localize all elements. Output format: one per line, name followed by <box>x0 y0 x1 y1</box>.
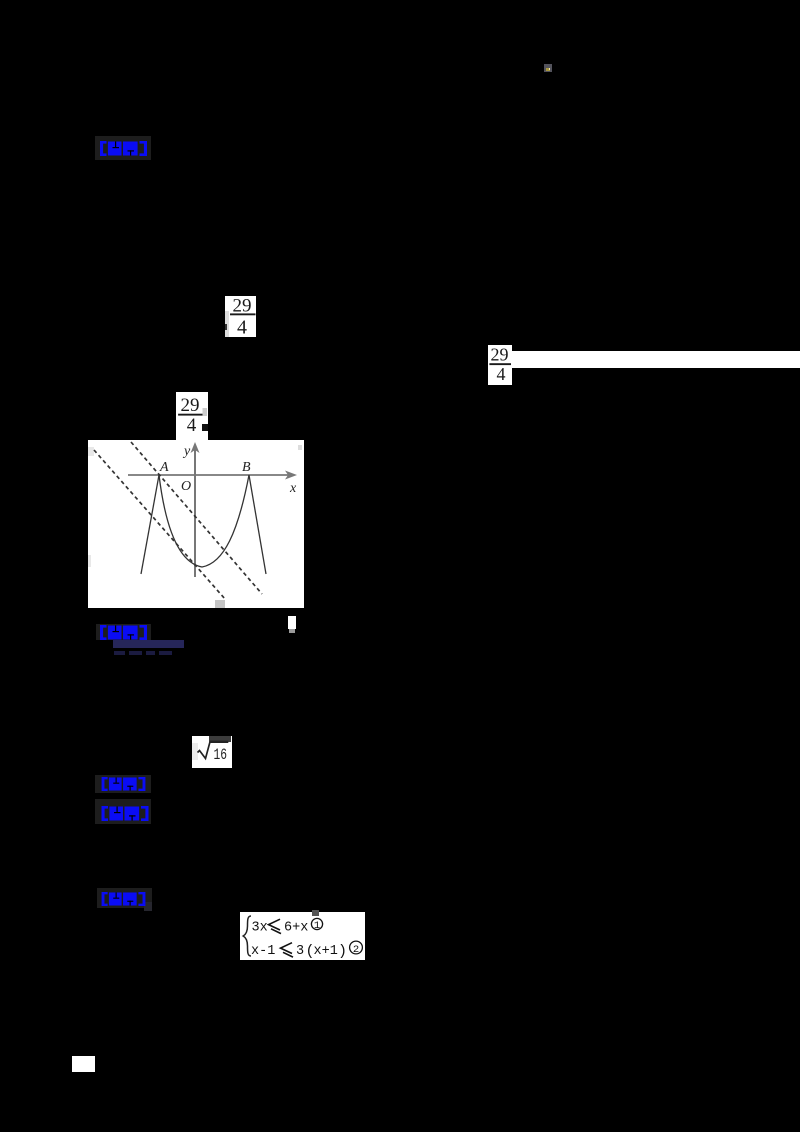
y-axis <box>194 448 196 577</box>
svg-text:A: A <box>159 460 169 475</box>
faint dash row <box>114 651 125 655</box>
svg-text:x+1: x+1 <box>314 944 338 959</box>
dashed line 2 <box>131 442 262 594</box>
scan artifacts <box>88 447 94 456</box>
svg-text:16: 16 <box>214 746 228 764</box>
svg-text:4: 4 <box>237 317 247 338</box>
blue label 4 <box>100 806 150 821</box>
fraction image 29/4 (first) <box>225 296 256 337</box>
svg-text:3x: 3x <box>252 921 268 936</box>
left brace <box>243 916 251 956</box>
blue label 2 <box>100 625 147 640</box>
halo behind label 3 <box>95 775 151 793</box>
svg-text:4: 4 <box>497 364 506 384</box>
gray mark on top edge of system image <box>312 910 319 916</box>
halo behind label 1 <box>95 136 151 160</box>
svg-text:3: 3 <box>296 944 304 959</box>
svg-text:y: y <box>182 444 191 459</box>
dashed line 1 <box>94 450 225 599</box>
halo behind label 4 <box>95 799 151 824</box>
parabola-like curve <box>159 475 249 567</box>
svg-text:29: 29 <box>181 395 200 416</box>
left spike <box>141 475 159 574</box>
white rectangle bottom left <box>72 1056 95 1072</box>
system of inequalities image <box>240 912 365 960</box>
svg-text:B: B <box>242 460 251 475</box>
svg-text:): ) <box>338 943 347 960</box>
navy underline bar <box>113 640 184 648</box>
x-axis <box>128 474 293 476</box>
halo behind label 2 <box>96 624 151 640</box>
fraction image 29/4 (second) <box>488 345 512 385</box>
small white glyph artifact <box>288 616 296 629</box>
broken-image icon top right <box>544 64 552 72</box>
blue label 1 <box>100 141 147 156</box>
svg-text:29: 29 <box>491 345 509 365</box>
svg-text:x-1: x-1 <box>251 944 275 959</box>
halo behind label 5 <box>97 888 152 908</box>
svg-text:2: 2 <box>353 944 359 956</box>
blue label 3 <box>100 777 147 791</box>
svg-text:O: O <box>181 479 191 494</box>
svg-text:6+x: 6+x <box>284 921 308 936</box>
white selection strip <box>512 351 800 368</box>
graph figure image <box>88 440 304 608</box>
blue label 5 <box>100 892 147 906</box>
sqrt(16) image <box>192 736 232 768</box>
svg-text:1: 1 <box>314 920 320 932</box>
right spike <box>249 475 266 574</box>
svg-text:4: 4 <box>187 415 197 436</box>
svg-text:x: x <box>289 481 297 496</box>
fraction image 29/4 (third) <box>176 392 208 440</box>
